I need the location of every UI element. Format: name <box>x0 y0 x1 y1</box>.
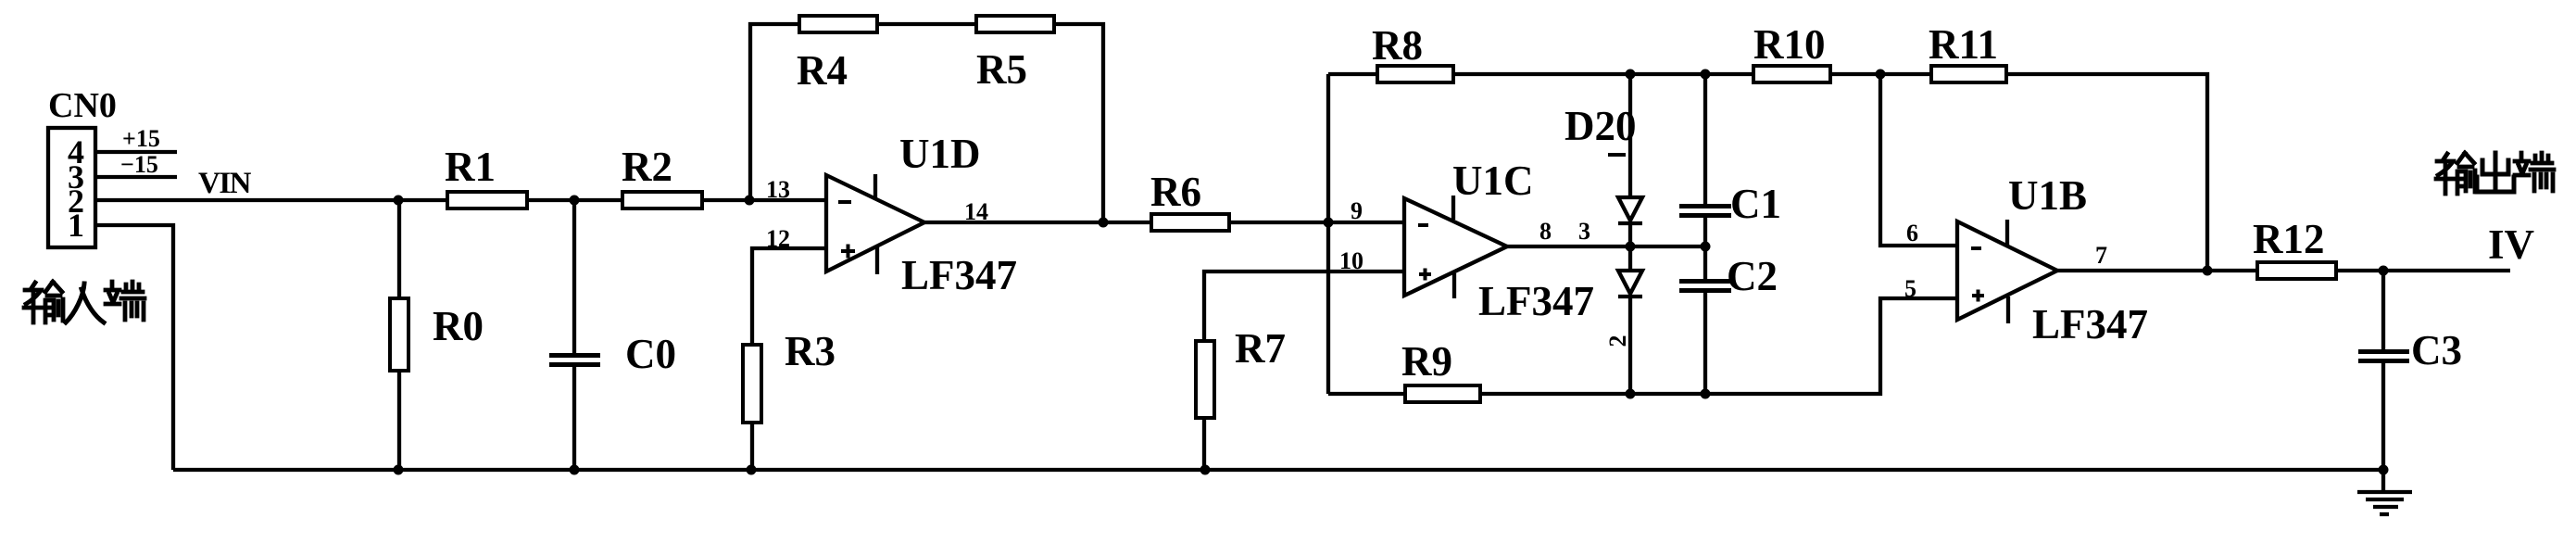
svg-text:LF347: LF347 <box>2032 301 2148 347</box>
svg-text:12: 12 <box>766 225 790 252</box>
svg-text:10: 10 <box>1339 247 1363 274</box>
svg-text:9: 9 <box>1351 197 1363 224</box>
svg-text:LF347: LF347 <box>1478 278 1594 324</box>
svg-text:R11: R11 <box>1929 21 1998 68</box>
svg-text:14: 14 <box>964 198 988 225</box>
svg-text:5: 5 <box>1904 275 1916 302</box>
svg-text:U1B: U1B <box>2008 172 2087 219</box>
svg-text:R12: R12 <box>2253 216 2325 262</box>
svg-text:CN0: CN0 <box>48 86 117 125</box>
svg-text:−15: −15 <box>120 151 158 178</box>
svg-text:7: 7 <box>2095 242 2107 269</box>
svg-text:C1: C1 <box>1730 181 1781 227</box>
svg-text:R7: R7 <box>1235 325 1286 372</box>
svg-text:C2: C2 <box>1727 253 1778 299</box>
svg-text:C0: C0 <box>625 331 676 377</box>
svg-text:R0: R0 <box>433 303 484 349</box>
svg-text:VIN: VIN <box>198 167 252 200</box>
svg-text:3: 3 <box>1578 218 1590 245</box>
svg-text:R1: R1 <box>445 144 496 190</box>
svg-text:LF347: LF347 <box>901 252 1017 298</box>
svg-text:R8: R8 <box>1372 22 1423 69</box>
svg-text:8: 8 <box>1539 218 1552 245</box>
svg-text:R4: R4 <box>797 47 848 94</box>
svg-text:D20: D20 <box>1564 103 1637 149</box>
svg-text:R2: R2 <box>622 144 672 190</box>
svg-text:R5: R5 <box>976 46 1027 93</box>
svg-text:U1D: U1D <box>899 131 981 177</box>
svg-text:R6: R6 <box>1150 169 1201 215</box>
svg-text:IV: IV <box>2488 221 2534 268</box>
svg-text:R10: R10 <box>1753 21 1826 68</box>
svg-text:13: 13 <box>766 176 790 203</box>
svg-text:6: 6 <box>1906 220 1918 246</box>
svg-text:+15: +15 <box>122 125 160 152</box>
svg-text:U1C: U1C <box>1452 158 1534 204</box>
svg-text:1: 1 <box>68 207 84 244</box>
svg-text:R9: R9 <box>1401 338 1452 385</box>
svg-text:2: 2 <box>1604 335 1631 347</box>
svg-text:R3: R3 <box>785 328 836 374</box>
svg-text:C3: C3 <box>2411 327 2462 373</box>
